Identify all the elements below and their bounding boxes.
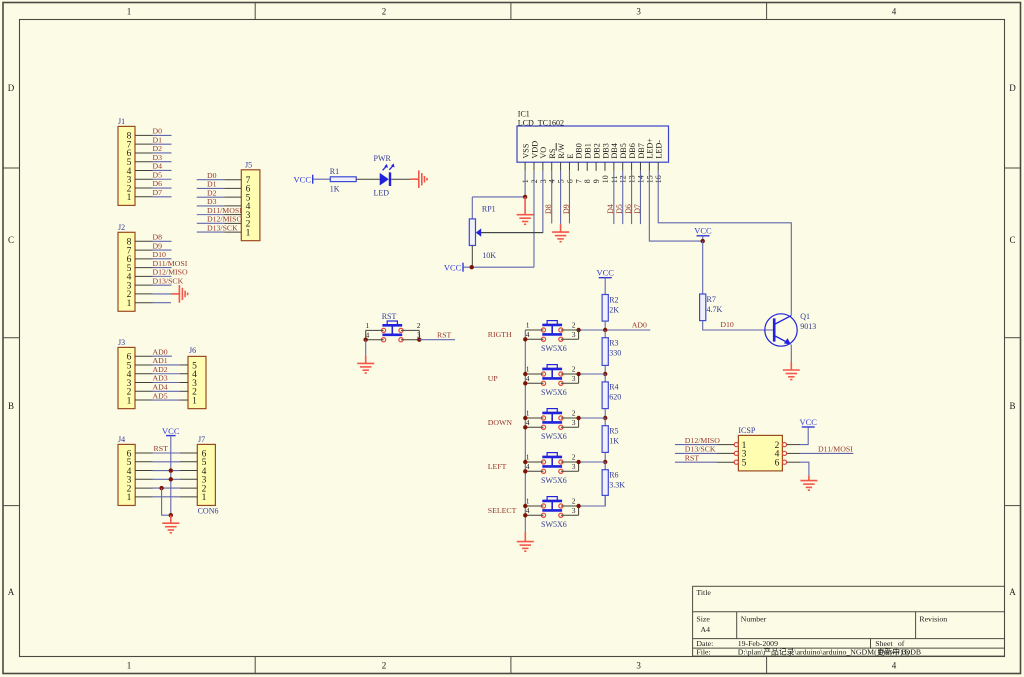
svg-text:D10: D10 bbox=[720, 320, 734, 329]
power port VCC at ICSP bbox=[799, 417, 817, 427]
svg-text:AD5: AD5 bbox=[153, 391, 168, 400]
junction LEFT right bbox=[576, 460, 580, 464]
wire IC1 pin2 VDD down bbox=[533, 171, 535, 267]
wire IC1 pin3 VO down bbox=[481, 171, 543, 233]
svg-text:1: 1 bbox=[127, 493, 132, 503]
wire RIGTH pin3 bbox=[561, 338, 579, 340]
junction left rail row4 bbox=[523, 425, 527, 429]
svg-text:8: 8 bbox=[583, 179, 592, 183]
connector J5 bbox=[241, 160, 260, 240]
svg-text:Size: Size bbox=[696, 614, 710, 623]
ground at keypad rail bbox=[517, 532, 534, 551]
junction left rail row4 bbox=[523, 513, 527, 517]
wire J2 pin 5 net D11/MOSI bbox=[135, 259, 188, 268]
wire DOWN pin2 bbox=[561, 417, 579, 419]
svg-text:File:: File: bbox=[696, 648, 710, 657]
wire J1 pin 4 net D4 bbox=[135, 162, 172, 171]
svg-text:LED+: LED+ bbox=[646, 138, 655, 159]
svg-text:1: 1 bbox=[246, 228, 251, 238]
svg-text:10K: 10K bbox=[482, 251, 496, 260]
wire SELECT pin1 bbox=[525, 505, 543, 507]
wire J2 pin 7 net D9 bbox=[135, 241, 172, 250]
wire J4 pin 4 to J7 pin 4 bbox=[135, 470, 197, 472]
svg-text:A: A bbox=[1009, 587, 1016, 597]
ground at IC1 pin1 bbox=[517, 197, 534, 224]
wire Q1 emitter to ground bbox=[790, 345, 792, 362]
svg-text:D2: D2 bbox=[207, 188, 217, 197]
ground at IC1 pin5 bbox=[552, 224, 569, 242]
svg-text:J3: J3 bbox=[118, 338, 125, 347]
svg-text:DB3: DB3 bbox=[601, 143, 610, 158]
potentiometer RP1 10K bbox=[469, 205, 496, 261]
svg-text:3.3K: 3.3K bbox=[609, 481, 625, 490]
wire to J5 pin 4 net D3 bbox=[197, 197, 242, 206]
wire RST left vertical bbox=[365, 330, 367, 339]
svg-text:D0: D0 bbox=[207, 171, 217, 180]
svg-text:LCD_TC1602: LCD_TC1602 bbox=[518, 118, 564, 127]
wire RP1 bottom bbox=[471, 246, 473, 268]
wire J4 pin 5 to J7 pin 5 bbox=[135, 461, 197, 463]
svg-text:1: 1 bbox=[366, 321, 370, 330]
pin numbers UP bbox=[526, 365, 576, 384]
svg-text:LED: LED bbox=[374, 189, 390, 198]
svg-text:9: 9 bbox=[592, 179, 601, 183]
svg-text:AD1: AD1 bbox=[153, 356, 168, 365]
resistor R5 1K bbox=[602, 426, 619, 453]
wire J4 pin 2 to J7 pin 2 bbox=[135, 487, 197, 489]
svg-text:1: 1 bbox=[526, 321, 530, 330]
wire IC1 pin13 net D6 bbox=[631, 171, 633, 224]
svg-text:D13/SCK: D13/SCK bbox=[685, 445, 716, 454]
wire RST pin3 bbox=[401, 339, 419, 341]
wire UP pin1 bbox=[525, 373, 543, 375]
wire to J5 pin 7 net D0 bbox=[197, 171, 242, 180]
wire IC1 pin4 net D8 bbox=[551, 171, 553, 224]
svg-text:RST: RST bbox=[437, 330, 452, 339]
wire SELECT pin2 bbox=[561, 505, 579, 507]
wire rail below R3 bbox=[604, 365, 606, 374]
svg-text:19-Feb-2009: 19-Feb-2009 bbox=[738, 639, 778, 648]
svg-text:AD3: AD3 bbox=[153, 374, 168, 383]
wire RST net stub bbox=[419, 339, 455, 341]
wire RST to ground bbox=[365, 340, 367, 356]
svg-text:9013: 9013 bbox=[800, 322, 816, 331]
resistor R1 1K bbox=[330, 167, 356, 193]
svg-text:2: 2 bbox=[572, 453, 576, 462]
svg-text:CON6: CON6 bbox=[198, 507, 219, 516]
junction SELECT right bbox=[576, 504, 580, 508]
wire J4 pin 3 to J7 pin 3 bbox=[135, 478, 197, 480]
wire LEFT to rail bbox=[579, 461, 606, 463]
svg-text:J1: J1 bbox=[118, 117, 125, 126]
wire VCC rail at RP1 bottom bbox=[463, 266, 534, 268]
pushbutton LEFT SW5X6 bbox=[541, 453, 563, 474]
wire J3 pin 6 net AD0 bbox=[135, 347, 172, 356]
connector ICSP bbox=[734, 426, 786, 471]
svg-text:RST: RST bbox=[154, 444, 169, 453]
pin numbers RST button bbox=[366, 321, 421, 339]
junction left rail row1 bbox=[523, 372, 527, 376]
pushbutton RIGTH SW5X6 bbox=[541, 321, 563, 342]
svg-text:1K: 1K bbox=[330, 185, 340, 194]
wire R1 to LED bbox=[356, 178, 380, 180]
wire IC1 pin15 LED+ to VCC bbox=[649, 171, 702, 241]
pushbutton DOWN SW5X6 bbox=[541, 409, 563, 430]
svg-text:D8: D8 bbox=[544, 204, 553, 214]
svg-text:J6: J6 bbox=[189, 346, 196, 355]
wire to ICSP net D12/MISO bbox=[675, 436, 734, 445]
pushbutton SELECT SW5X6 bbox=[541, 497, 563, 518]
resistor R7 4.7K bbox=[700, 294, 723, 321]
svg-text:VCC: VCC bbox=[162, 426, 180, 436]
power port VCC at R1 bbox=[294, 174, 313, 184]
wire J1 pin 1 net D7 bbox=[135, 188, 172, 197]
wire to J5 pin 3 net D11/MOSI bbox=[197, 206, 242, 215]
svg-text:Revision: Revision bbox=[919, 614, 947, 623]
svg-text:R1: R1 bbox=[330, 167, 339, 176]
junction AD0 left bbox=[576, 328, 580, 332]
svg-text:D: D bbox=[8, 83, 15, 93]
svg-text:VCC: VCC bbox=[799, 417, 817, 427]
svg-text:D11/MOSI: D11/MOSI bbox=[207, 206, 242, 215]
resistor R3 330 bbox=[602, 338, 621, 366]
wire J2 pin 8 net D8 bbox=[135, 233, 172, 242]
svg-text:D1: D1 bbox=[153, 135, 163, 144]
svg-text:RP1: RP1 bbox=[482, 205, 496, 214]
svg-text:Sheet: Sheet bbox=[875, 639, 893, 648]
svg-text:VO: VO bbox=[539, 147, 548, 159]
svg-text:AD0: AD0 bbox=[153, 347, 168, 356]
svg-text:DB1: DB1 bbox=[584, 143, 593, 158]
svg-text:AD0: AD0 bbox=[632, 320, 647, 329]
svg-text:D11/MOSI: D11/MOSI bbox=[153, 259, 188, 268]
svg-text:2: 2 bbox=[572, 365, 576, 374]
svg-text:R5: R5 bbox=[609, 427, 618, 436]
svg-text:7: 7 bbox=[574, 179, 583, 183]
junction at IC1 pin1 bbox=[523, 195, 527, 199]
wire to J5 pin 5 net D2 bbox=[197, 188, 242, 197]
svg-text:D4: D4 bbox=[153, 162, 163, 171]
svg-text:4: 4 bbox=[892, 7, 897, 17]
svg-text:D7: D7 bbox=[153, 188, 163, 197]
svg-text:3: 3 bbox=[572, 462, 576, 471]
wire AD0 from buttons bbox=[579, 329, 651, 331]
wire J3 pin 5 to J6 pin 5 net AD1 bbox=[135, 356, 188, 365]
svg-text:DB6: DB6 bbox=[628, 143, 637, 158]
svg-text:D12/MISO: D12/MISO bbox=[153, 268, 188, 277]
svg-text:R4: R4 bbox=[609, 383, 618, 392]
wire RIGTH right vertical bbox=[578, 330, 580, 339]
wire DOWN right vertical bbox=[578, 418, 580, 427]
wire J3 pin 1 to J6 pin 1 net AD5 bbox=[135, 391, 188, 400]
wire DOWN pin3 bbox=[561, 426, 579, 428]
svg-text:3: 3 bbox=[572, 506, 576, 515]
svg-text:VCC: VCC bbox=[444, 262, 462, 272]
junction AD0 rail bbox=[603, 328, 607, 332]
wire RST right vertical bbox=[418, 330, 420, 339]
junction left rail row4 bbox=[523, 469, 527, 473]
wire J3 pin 2 to J6 pin 2 net AD4 bbox=[135, 382, 188, 391]
wire LEFT pin2 bbox=[561, 461, 579, 463]
wire rail corner to SELECT bbox=[579, 495, 606, 506]
svg-text:2: 2 bbox=[572, 409, 576, 418]
pushbutton UP SW5X6 bbox=[541, 365, 563, 386]
connector J3 bbox=[118, 338, 135, 409]
wire UP to rail bbox=[579, 373, 606, 375]
svg-text:of: of bbox=[898, 639, 905, 648]
svg-text:Number: Number bbox=[741, 614, 767, 623]
svg-text:RST: RST bbox=[382, 312, 397, 321]
svg-text:IC1: IC1 bbox=[518, 109, 530, 118]
wire J4 pin 1 to J7 pin 1 bbox=[135, 496, 197, 498]
svg-text:3: 3 bbox=[572, 330, 576, 339]
svg-text:1: 1 bbox=[127, 193, 132, 203]
svg-text:D6: D6 bbox=[153, 179, 163, 188]
svg-text:D3: D3 bbox=[207, 197, 217, 206]
pin numbers LEFT bbox=[526, 453, 576, 472]
connector J4 bbox=[118, 435, 135, 506]
svg-text:B: B bbox=[8, 401, 14, 411]
wire J4 pin 6 to J7 pin 6 bbox=[135, 452, 197, 454]
connector J6 bbox=[188, 346, 206, 409]
svg-text:VCC: VCC bbox=[294, 174, 312, 184]
svg-text:SW5X6: SW5X6 bbox=[541, 344, 567, 353]
wire LEFT pin3 bbox=[561, 470, 579, 472]
wire rail above R4 bbox=[604, 374, 606, 382]
svg-text:PWR: PWR bbox=[374, 154, 392, 163]
wire IC1 pin12 net D5 bbox=[622, 171, 624, 224]
ground at J2 pin 2 bbox=[171, 285, 188, 303]
wire J1 pin 6 net D2 bbox=[135, 144, 172, 153]
svg-text:SW5X6: SW5X6 bbox=[541, 520, 567, 529]
resistor R2 2K bbox=[602, 295, 619, 322]
wire IC1 pin14 net D7 bbox=[639, 171, 641, 224]
wire UP pin3 bbox=[561, 382, 579, 384]
svg-text:2: 2 bbox=[417, 321, 421, 330]
wire to ICSP net D13/SCK bbox=[675, 445, 734, 454]
svg-text:SW5X6: SW5X6 bbox=[541, 476, 567, 485]
svg-text:SW5X6: SW5X6 bbox=[541, 432, 567, 441]
svg-text:VCC: VCC bbox=[694, 226, 712, 236]
ground at LED cathode bbox=[410, 170, 427, 188]
svg-text:AD4: AD4 bbox=[153, 382, 168, 391]
svg-text:1: 1 bbox=[127, 661, 132, 671]
svg-text:DOWN: DOWN bbox=[488, 418, 513, 427]
wire SELECT pin4 bbox=[525, 514, 543, 516]
junction DOWN right bbox=[576, 416, 580, 420]
svg-text:C: C bbox=[1009, 235, 1015, 245]
wire RIGTH pin2 bbox=[561, 329, 579, 331]
wire J2 pin 1 bbox=[135, 302, 171, 304]
wire VCC to R2 bbox=[604, 278, 606, 295]
junction at J4 row3 bbox=[169, 477, 173, 481]
svg-text:D9: D9 bbox=[562, 204, 571, 214]
svg-text:3: 3 bbox=[572, 418, 576, 427]
ground at Q1 emitter bbox=[783, 362, 800, 380]
wire LEFT right vertical bbox=[578, 462, 580, 471]
svg-text:6: 6 bbox=[775, 459, 780, 469]
svg-text:Q1: Q1 bbox=[800, 312, 810, 321]
pin numbers RIGTH bbox=[526, 321, 576, 340]
connector J7 bbox=[197, 435, 215, 506]
wire J3 pin 4 to J6 pin 4 net AD2 bbox=[135, 365, 188, 374]
svg-text:DB5: DB5 bbox=[619, 143, 628, 158]
svg-text:AD2: AD2 bbox=[153, 365, 168, 374]
svg-text:Drawn By:: Drawn By: bbox=[878, 648, 912, 657]
svg-text:D9: D9 bbox=[153, 241, 163, 250]
wire to J5 pin 6 net D1 bbox=[197, 180, 242, 189]
wire RIGTH pin1 bbox=[525, 329, 543, 331]
svg-text:RST: RST bbox=[685, 453, 700, 462]
wire RST pin4 bbox=[366, 339, 384, 341]
svg-text:3: 3 bbox=[572, 374, 576, 383]
svg-text:UP: UP bbox=[488, 374, 499, 383]
svg-text:VDD: VDD bbox=[530, 141, 539, 159]
wire IC1 pin1 to RP1 top bbox=[472, 196, 525, 198]
wire RP1 top bbox=[471, 197, 473, 219]
svg-text:1K: 1K bbox=[609, 437, 619, 446]
wire DOWN pin4 bbox=[525, 426, 543, 428]
junction rail row 374 bbox=[603, 372, 607, 376]
svg-text:RS: RS bbox=[548, 148, 557, 158]
svg-text:J5: J5 bbox=[245, 160, 252, 169]
svg-text:E: E bbox=[566, 154, 575, 159]
wire branch from J4 row2 down bbox=[162, 488, 171, 515]
svg-text:D8: D8 bbox=[153, 233, 163, 242]
wire J1 pin 7 net D1 bbox=[135, 135, 172, 144]
wire IC1 pin6 net D9 bbox=[568, 171, 570, 224]
svg-text:1: 1 bbox=[192, 396, 197, 406]
svg-text:1: 1 bbox=[127, 7, 132, 17]
svg-text:3: 3 bbox=[636, 661, 641, 671]
junction left rail row1 bbox=[523, 504, 527, 508]
wire rail above R3 bbox=[604, 330, 606, 338]
wire SELECT pin3 bbox=[561, 514, 579, 516]
svg-text:B: B bbox=[1009, 401, 1015, 411]
svg-text:RIGTH: RIGTH bbox=[488, 330, 512, 339]
wire J3 pin 3 to J6 pin 3 net AD3 bbox=[135, 374, 188, 383]
svg-text:R/W: R/W bbox=[557, 143, 566, 159]
wire J2 pin 2 to ground bbox=[135, 293, 171, 295]
svg-text:1: 1 bbox=[127, 396, 132, 406]
svg-text:D7: D7 bbox=[633, 204, 642, 214]
svg-text:R6: R6 bbox=[609, 471, 618, 480]
svg-text:DB0: DB0 bbox=[575, 143, 584, 158]
wire IC1 pin16 LED- to Q1 collector bbox=[658, 171, 791, 316]
wire rail below R6 bbox=[604, 495, 606, 506]
wire to ICSP net RST bbox=[675, 453, 734, 462]
junction UP right bbox=[576, 372, 580, 376]
wire IC1 pin1 VSS down bbox=[524, 171, 526, 197]
svg-text:DB4: DB4 bbox=[610, 143, 619, 158]
svg-text:D1: D1 bbox=[207, 180, 217, 189]
junction at J4 row4 bbox=[169, 468, 173, 472]
power port VCC at RP1 bbox=[444, 262, 463, 272]
wire R2 to AD0 node bbox=[604, 321, 606, 330]
connector J2 bbox=[118, 223, 135, 311]
junction at J4 row2 bbox=[159, 486, 163, 490]
power port VCC above R7 bbox=[694, 226, 712, 242]
svg-text:R3: R3 bbox=[609, 339, 618, 348]
svg-text:LEFT: LEFT bbox=[488, 462, 507, 471]
junction left rail row1 bbox=[523, 460, 527, 464]
ground below J4/J7 bbox=[162, 515, 179, 533]
wire UP pin2 bbox=[561, 373, 579, 375]
svg-text:R7: R7 bbox=[707, 295, 716, 304]
wire J1 pin 8 net D0 bbox=[135, 127, 172, 136]
svg-text:4: 4 bbox=[892, 661, 897, 671]
junction rail row 462 bbox=[603, 460, 607, 464]
svg-text:620: 620 bbox=[609, 393, 621, 402]
wire RP1 wiper bbox=[481, 232, 543, 234]
svg-text:D5: D5 bbox=[615, 204, 624, 214]
svg-text:1: 1 bbox=[202, 493, 207, 503]
power port VCC above J4/J7 bbox=[162, 426, 180, 436]
resistor R4 620 bbox=[602, 382, 621, 409]
svg-text:2: 2 bbox=[382, 661, 387, 671]
wire VCC to R7 bbox=[702, 241, 704, 294]
junction at VCC R7 bbox=[701, 239, 705, 243]
junction RST left bbox=[364, 338, 368, 342]
wire LEFT pin4 bbox=[525, 470, 543, 472]
wire keypad left rail bbox=[524, 330, 526, 532]
wire J1 pin 2 net D6 bbox=[135, 179, 172, 188]
title block bbox=[693, 586, 1005, 656]
svg-text:1: 1 bbox=[127, 299, 132, 309]
wire SELECT right vertical bbox=[578, 506, 580, 515]
svg-text:D12/MISO: D12/MISO bbox=[685, 436, 720, 445]
junction left rail row4 bbox=[523, 337, 527, 341]
svg-text:2: 2 bbox=[572, 321, 576, 330]
svg-text:D2: D2 bbox=[153, 144, 163, 153]
wire J2 pin 4 net D12/MISO bbox=[135, 268, 188, 277]
wire to J5 pin 2 net D12/MISO bbox=[197, 215, 243, 224]
wire to J5 pin 1 net D13/SCK bbox=[197, 223, 242, 232]
svg-text:D4: D4 bbox=[606, 204, 615, 214]
pin numbers DOWN bbox=[526, 409, 576, 428]
svg-text:D6: D6 bbox=[624, 204, 633, 214]
wire ICSP pin6 to ground bbox=[787, 461, 800, 463]
wire rail above R5 bbox=[604, 418, 606, 426]
svg-text:2K: 2K bbox=[609, 305, 619, 314]
svg-text:A4: A4 bbox=[701, 625, 711, 634]
svg-text:SELECT: SELECT bbox=[488, 506, 517, 515]
wire ICSP pin4 net D11/MOSI bbox=[787, 452, 800, 454]
junction left rail row1 bbox=[523, 416, 527, 420]
wire IC1 pin5 to ground bbox=[560, 171, 562, 224]
svg-text:J7: J7 bbox=[198, 435, 205, 444]
ground at RST button bbox=[357, 355, 374, 373]
wire J2 pin 3 net D13/SCK bbox=[135, 276, 184, 285]
wire UP pin4 bbox=[525, 382, 543, 384]
svg-text:D12/MISO: D12/MISO bbox=[207, 215, 242, 224]
svg-text:DB2: DB2 bbox=[592, 143, 601, 158]
wire J2 pin 6 net D10 bbox=[135, 250, 172, 259]
svg-text:4.7K: 4.7K bbox=[707, 305, 723, 314]
junction at bottom of VCC line bbox=[169, 513, 173, 517]
svg-text:R2: R2 bbox=[609, 295, 618, 304]
wire VCC vertical between J4 and J7 bbox=[170, 436, 172, 516]
svg-text:LED-: LED- bbox=[655, 140, 664, 159]
wire UP right vertical bbox=[578, 374, 580, 383]
svg-text:D: D bbox=[1009, 83, 1016, 93]
svg-text:J4: J4 bbox=[118, 435, 125, 444]
svg-text:D10: D10 bbox=[153, 250, 167, 259]
connector J1 bbox=[118, 117, 135, 205]
svg-text:DB7: DB7 bbox=[637, 143, 646, 158]
svg-text:VCC: VCC bbox=[596, 268, 614, 278]
svg-text:10: 10 bbox=[601, 175, 610, 183]
